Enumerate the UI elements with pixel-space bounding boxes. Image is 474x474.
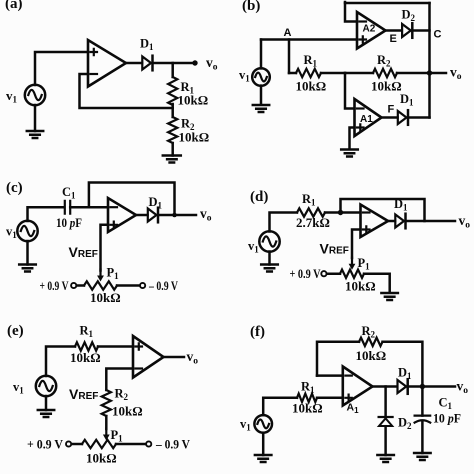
ground below C1 (f) bbox=[414, 453, 431, 460]
wire R1 to junction (b) bbox=[321, 72, 345, 75]
wire pot left (d) bbox=[326, 272, 340, 275]
resistor R2 10k (b) bbox=[371, 53, 402, 94]
svg-text:v1: v1 bbox=[6, 225, 17, 241]
resistor R1 10k (a) bbox=[168, 77, 208, 108]
diode D1 (a) bbox=[140, 37, 154, 71]
source V1 (b) bbox=[239, 68, 270, 86]
wire feedback top rail (f) bbox=[317, 342, 359, 376]
resistor R1 2.7k (d) bbox=[296, 192, 330, 230]
svg-text:P1: P1 bbox=[107, 266, 120, 282]
wire feedback to inverting input (a) bbox=[80, 74, 173, 108]
svg-text:vo: vo bbox=[457, 379, 469, 397]
potentiometer body 10k (c) bbox=[84, 281, 121, 305]
svg-text:(b): (b) bbox=[242, 0, 260, 14]
svg-text:10kΩ: 10kΩ bbox=[292, 401, 323, 416]
svg-text:v1: v1 bbox=[248, 239, 259, 255]
svg-text:E: E bbox=[390, 33, 397, 45]
op-amp A1 (b) bbox=[355, 99, 382, 136]
ground below A1 (b) bbox=[341, 150, 358, 157]
diode D2 (b) bbox=[402, 8, 416, 38]
wire R2 to ground (a) bbox=[171, 143, 174, 156]
svg-text:10 pF: 10 pF bbox=[56, 215, 82, 230]
wire source to C1 (c) bbox=[28, 207, 65, 221]
ground below source (f) bbox=[255, 455, 272, 462]
svg-text:vo: vo bbox=[187, 349, 199, 367]
wire op-amp output (a) bbox=[126, 62, 142, 65]
panel label (a) bbox=[5, 0, 23, 12]
node vo (a) bbox=[192, 55, 217, 73]
panel label (f) bbox=[250, 324, 265, 340]
potentiometer body 10k (d) bbox=[340, 270, 376, 294]
wire source to ground (c) bbox=[26, 241, 29, 265]
wire source up to R1 (e) bbox=[46, 347, 75, 377]
svg-text:VREF: VREF bbox=[69, 244, 98, 260]
wire feedback loop (d) bbox=[341, 199, 425, 221]
wire feedback top rail (b) bbox=[345, 2, 430, 5]
svg-text:10kΩ: 10kΩ bbox=[356, 348, 387, 363]
svg-text:VREF: VREF bbox=[320, 241, 349, 257]
potentiometer wiper P1 (d) bbox=[349, 256, 371, 272]
svg-text:P1: P1 bbox=[111, 428, 124, 444]
svg-text:C: C bbox=[434, 29, 442, 41]
svg-text:10kΩ: 10kΩ bbox=[178, 93, 209, 108]
terminal -0.9V (c) bbox=[140, 279, 178, 293]
wire R1 to noninverting input (f) bbox=[317, 397, 343, 400]
svg-text:v1: v1 bbox=[6, 88, 18, 105]
label VREF (d) bbox=[320, 241, 349, 257]
wire top rail to A2 inverting input (b) bbox=[345, 2, 357, 22]
potentiometer body 10k (e) bbox=[82, 440, 117, 466]
node output junction (f) bbox=[420, 384, 425, 389]
diode D1 (c) bbox=[148, 195, 163, 222]
wire R1 to noninverting input (e) bbox=[98, 345, 133, 348]
panel label (d) bbox=[250, 189, 268, 205]
svg-text:10kΩ: 10kΩ bbox=[86, 451, 117, 466]
resistor R1 10k (e) bbox=[70, 324, 101, 366]
panel label (b) bbox=[242, 0, 260, 14]
wire right rail (b) bbox=[428, 3, 431, 118]
svg-text:D1: D1 bbox=[149, 195, 163, 211]
wire D1 to rail (b) bbox=[409, 116, 430, 119]
diode D1 (f) bbox=[398, 366, 413, 394]
svg-text:R2: R2 bbox=[115, 387, 129, 403]
node junction output (c) bbox=[172, 213, 177, 218]
svg-text:+ 0.9 V: + 0.9 V bbox=[40, 279, 69, 293]
svg-text:10kΩ: 10kΩ bbox=[296, 79, 327, 94]
wire rail down to C1 (f) bbox=[421, 387, 424, 416]
wire noninverting to VREF (c) bbox=[101, 225, 109, 271]
wire D1 to vo (c) bbox=[159, 206, 212, 224]
wire R2 to wiper (e) bbox=[105, 416, 108, 429]
wire A to source (b) bbox=[260, 40, 263, 69]
resistor R2 10k (a) bbox=[168, 117, 209, 145]
svg-text:(f): (f) bbox=[250, 324, 265, 340]
svg-text:R2: R2 bbox=[362, 324, 376, 340]
wire D1 to vo (d) bbox=[406, 213, 470, 231]
svg-text:vo: vo bbox=[200, 206, 212, 224]
terminal +0.9V (d) bbox=[290, 267, 327, 281]
svg-text:10kΩ: 10kΩ bbox=[90, 290, 121, 305]
wire D2 to rail node C (b) bbox=[413, 29, 442, 41]
svg-text:D2: D2 bbox=[398, 416, 412, 432]
wire output down to D2 (f) bbox=[384, 387, 387, 418]
wire source to R1 (f) bbox=[263, 398, 297, 415]
svg-text:C1: C1 bbox=[62, 185, 76, 201]
wire D1 to vo (f) bbox=[408, 379, 468, 397]
svg-text:10kΩ: 10kΩ bbox=[112, 404, 143, 419]
terminal +0.9V (e) bbox=[27, 438, 71, 452]
wire junction down to A1 inverting input (b) bbox=[345, 73, 355, 109]
label VREF (e) bbox=[69, 386, 98, 402]
ground below source (d) bbox=[261, 265, 278, 272]
op-amp A1 (f) bbox=[343, 367, 373, 416]
svg-text:(e): (e) bbox=[7, 323, 24, 339]
wire A2 output (b) bbox=[386, 31, 402, 46]
terminal +0.9V (c) bbox=[40, 279, 77, 293]
wire vo-branch down to R1 (a) bbox=[171, 63, 174, 77]
op-amp U1 (c) bbox=[108, 198, 136, 232]
svg-text:10kΩ: 10kΩ bbox=[371, 79, 402, 94]
wire source to ground (f) bbox=[262, 433, 265, 455]
svg-text:R2: R2 bbox=[377, 53, 391, 69]
wire A1 output (b) bbox=[382, 104, 398, 118]
diode D1 (d) bbox=[394, 197, 408, 228]
wire output vo (e) bbox=[164, 349, 199, 367]
wire output to D1 (c) bbox=[136, 214, 148, 217]
ground below D2 (f) bbox=[377, 455, 394, 462]
wire pot right to ground (d) bbox=[364, 274, 390, 293]
resistor R2 10k (e) bbox=[102, 387, 143, 419]
wire source to ground (b) bbox=[260, 86, 263, 104]
svg-text:R1: R1 bbox=[80, 324, 94, 340]
svg-text:R1: R1 bbox=[304, 53, 318, 69]
svg-text:A1: A1 bbox=[347, 402, 360, 416]
terminal -0.9V (e) bbox=[146, 438, 190, 452]
svg-text:vo: vo bbox=[450, 65, 462, 83]
capacitor C1 10pF (f) bbox=[415, 396, 461, 426]
svg-text:10kΩ: 10kΩ bbox=[345, 279, 376, 294]
capacitor C1 10pF (c) bbox=[56, 185, 82, 230]
node junction feedback (d) bbox=[338, 210, 343, 215]
svg-text:– 0.9 V: – 0.9 V bbox=[148, 279, 178, 293]
source V1 (d) bbox=[248, 231, 280, 254]
label VREF (c) bbox=[69, 244, 98, 260]
svg-text:VREF: VREF bbox=[69, 386, 98, 402]
svg-text:D2: D2 bbox=[402, 8, 416, 24]
panel label (c) bbox=[6, 180, 23, 196]
wire diode-to-vo (a) bbox=[153, 62, 195, 65]
source V1 (a) bbox=[6, 85, 45, 105]
wire source to R1 (d) bbox=[270, 213, 298, 232]
wire A-drop to R1 (b) bbox=[288, 40, 291, 74]
op-amp A2 (b) bbox=[357, 12, 386, 49]
svg-text:(a): (a) bbox=[5, 0, 23, 12]
svg-text:+ 0.9 V: + 0.9 V bbox=[290, 267, 321, 281]
resistor R2 10k (f) bbox=[356, 324, 387, 363]
potentiometer wiper P1 (c) bbox=[97, 266, 119, 282]
ground below source (e) bbox=[38, 410, 54, 417]
svg-text:D1: D1 bbox=[140, 37, 154, 53]
wire R2 to vo rail (b) bbox=[397, 72, 430, 75]
wire R1-R2 junction (a) bbox=[171, 104, 174, 117]
wire D2 to ground (f) bbox=[384, 426, 387, 455]
svg-text:A1: A1 bbox=[360, 114, 373, 125]
svg-text:R1: R1 bbox=[302, 192, 316, 208]
wire source to ground (a) bbox=[34, 105, 37, 131]
wire pot right (e) bbox=[116, 443, 146, 446]
svg-text:D1: D1 bbox=[400, 92, 414, 108]
ground below source (c) bbox=[19, 265, 36, 272]
wire R1 to junction (d) bbox=[325, 211, 361, 214]
wire inverting to VREF (e) bbox=[106, 369, 133, 391]
ground below source (b) bbox=[253, 105, 269, 112]
svg-text:v1: v1 bbox=[13, 380, 24, 396]
node A wire (b) bbox=[261, 27, 357, 40]
wire noninverting to VREF (d) bbox=[352, 230, 361, 259]
svg-text:P1: P1 bbox=[358, 256, 371, 272]
wire pot left (c) bbox=[76, 284, 84, 287]
svg-text:(c): (c) bbox=[6, 180, 23, 196]
wire pot right (c) bbox=[117, 284, 140, 287]
ground below R2 (a) bbox=[163, 156, 181, 163]
panel label (e) bbox=[7, 323, 24, 339]
potentiometer wiper P1 (e) bbox=[103, 428, 123, 444]
wire source to ground (e) bbox=[45, 396, 48, 410]
resistor R1 10k (f) bbox=[292, 380, 323, 416]
svg-text:F: F bbox=[388, 104, 395, 116]
wire rail to inverting input (f) bbox=[317, 374, 343, 377]
wire C1 to ground (f) bbox=[421, 421, 424, 453]
svg-text:10kΩ: 10kΩ bbox=[70, 350, 101, 365]
ground below source (a) bbox=[27, 131, 43, 138]
svg-text:A: A bbox=[284, 27, 292, 39]
wire C1 to inverting input (c) bbox=[70, 206, 108, 209]
svg-text:v1: v1 bbox=[240, 417, 251, 433]
svg-text:A2: A2 bbox=[363, 24, 376, 35]
node vo (b) bbox=[427, 65, 462, 83]
svg-text:2.7kΩ: 2.7kΩ bbox=[296, 215, 330, 230]
wire R2 to right rail (f) bbox=[383, 342, 423, 387]
wire output row (f) bbox=[373, 385, 398, 388]
svg-text:R1: R1 bbox=[301, 380, 315, 396]
svg-text:D1: D1 bbox=[398, 366, 412, 382]
svg-text:vo: vo bbox=[459, 213, 471, 231]
op-amp U1 (a) bbox=[88, 40, 126, 87]
svg-text:10kΩ: 10kΩ bbox=[179, 130, 210, 145]
ground below pot (d) bbox=[381, 293, 398, 300]
wire feedback loop (c) bbox=[89, 183, 175, 216]
op-amp U1 (e) bbox=[133, 336, 164, 378]
svg-text:(d): (d) bbox=[250, 189, 268, 205]
svg-text:vo: vo bbox=[206, 55, 218, 73]
diode D2 shunt (f) bbox=[379, 416, 412, 432]
wire pot left (e) bbox=[71, 443, 82, 446]
source V1 (f) bbox=[240, 415, 272, 433]
wire source to ground (d) bbox=[268, 252, 271, 265]
svg-text:10 pF: 10 pF bbox=[433, 411, 461, 426]
wire A1 noninverting to ground (b) bbox=[350, 128, 355, 150]
wire output to D1 (d) bbox=[388, 220, 395, 223]
resistor R1 10k (b) bbox=[289, 53, 326, 94]
wire junction to R2 (b) bbox=[345, 72, 373, 75]
svg-text:– 0.9 V: – 0.9 V bbox=[155, 438, 190, 452]
wire source-to-noninverting-input (a) bbox=[35, 52, 88, 85]
op-amp U1 (d) bbox=[361, 205, 389, 238]
source V1 (c) bbox=[6, 221, 38, 241]
svg-text:v1: v1 bbox=[239, 68, 250, 84]
diode D1 (b) bbox=[398, 92, 414, 125]
svg-text:+ 0.9 V: + 0.9 V bbox=[27, 438, 63, 452]
svg-text:C1: C1 bbox=[439, 396, 453, 412]
source V1 (e) bbox=[13, 376, 56, 396]
